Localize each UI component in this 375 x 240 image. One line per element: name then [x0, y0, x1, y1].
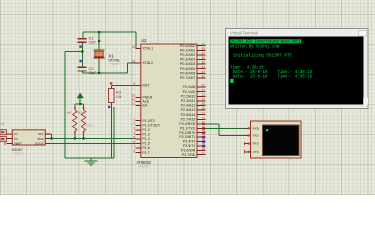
svg-text:<TEXT>: <TEXT>	[12, 151, 23, 155]
svg-text:P2.4/A12: P2.4/A12	[181, 104, 196, 108]
svg-text:P0.3/AD3: P0.3/AD3	[180, 58, 195, 62]
svg-text:<TEXT>: <TEXT>	[110, 62, 121, 66]
svg-text:P0.7/AD7: P0.7/AD7	[180, 76, 195, 80]
svg-text:U1: U1	[1, 122, 5, 126]
svg-text:P3.0/RXD: P3.0/RXD	[179, 122, 195, 126]
svg-text:P2.3/A11: P2.3/A11	[181, 99, 196, 103]
svg-text:P0.5/AD5: P0.5/AD5	[180, 67, 195, 71]
svg-text:P1.3: P1.3	[142, 133, 149, 137]
svg-text:P1.6: P1.6	[142, 146, 149, 150]
svg-text:12: 12	[201, 129, 205, 133]
svg-text:RST: RST	[142, 84, 150, 88]
svg-text:P1.4: P1.4	[142, 137, 149, 141]
svg-text:R2(2): R2(2)	[86, 123, 94, 127]
svg-text:14: 14	[201, 138, 205, 142]
svg-text:39: 39	[201, 42, 205, 46]
svg-text:P0.0/AD0: P0.0/AD0	[180, 44, 195, 48]
svg-text:SOUT: SOUT	[35, 141, 44, 145]
svg-text:22pF: 22pF	[89, 71, 97, 75]
svg-text:VBAT: VBAT	[14, 141, 22, 145]
svg-text:4k7: 4k7	[67, 111, 72, 115]
svg-text:CTS: CTS	[253, 150, 259, 154]
svg-text:25: 25	[201, 102, 205, 106]
svg-text:27: 27	[201, 111, 205, 115]
svg-text:10: 10	[201, 121, 205, 125]
svg-text:C1: C1	[89, 35, 95, 40]
svg-text:P2.6/A14: P2.6/A14	[181, 113, 196, 117]
svg-text:32: 32	[201, 75, 205, 79]
svg-text:16: 16	[201, 147, 205, 151]
svg-text:11: 11	[202, 125, 206, 129]
svg-text:36: 36	[201, 56, 205, 60]
svg-text:33: 33	[201, 70, 205, 74]
svg-text:1: 1	[133, 117, 135, 121]
svg-text:P3.3/INT1: P3.3/INT1	[179, 135, 195, 139]
svg-text:2: 2	[133, 122, 135, 126]
svg-text:5: 5	[133, 136, 135, 140]
svg-text:17: 17	[201, 151, 205, 155]
svg-text:P0.1/AD1: P0.1/AD1	[180, 48, 195, 52]
svg-text:P2.2/A10: P2.2/A10	[181, 94, 196, 98]
svg-text:8: 8	[133, 149, 135, 153]
svg-text:Initializing DS1307 RTC: Initializing DS1307 RTC	[230, 53, 292, 59]
svg-text:P2.1/A9: P2.1/A9	[183, 90, 196, 94]
svg-text:P1.7: P1.7	[142, 151, 149, 155]
svg-text:15: 15	[201, 143, 205, 147]
svg-text:7: 7	[133, 145, 135, 149]
svg-text:37: 37	[201, 52, 205, 56]
svg-text:10k: 10k	[116, 95, 122, 99]
svg-text:3: 3	[133, 127, 135, 131]
svg-text:4: 4	[133, 131, 135, 135]
svg-text:31: 31	[132, 102, 136, 106]
svg-text:RTS: RTS	[253, 142, 259, 146]
svg-text:Virtual Terminal: Virtual Terminal	[230, 30, 258, 35]
svg-text:XTAL2: XTAL2	[142, 61, 153, 65]
svg-text:26: 26	[201, 107, 205, 111]
svg-text:21: 21	[201, 84, 205, 88]
svg-text:SCL: SCL	[38, 132, 44, 136]
svg-text:P0.6/AD6: P0.6/AD6	[180, 71, 195, 75]
svg-text:X1: X1	[14, 132, 18, 136]
svg-text:P2.7/A15: P2.7/A15	[181, 117, 196, 121]
svg-text:U2: U2	[141, 38, 147, 43]
svg-text:P3.7/RD: P3.7/RD	[182, 153, 196, 157]
svg-text:4k7: 4k7	[77, 111, 82, 115]
svg-text:23: 23	[201, 93, 205, 97]
svg-text:P2.0/A8: P2.0/A8	[183, 85, 196, 89]
svg-text:XTAL1: XTAL1	[142, 47, 153, 51]
svg-text:34: 34	[201, 65, 205, 69]
svg-text:13: 13	[201, 134, 205, 138]
svg-text:P3.5/T1: P3.5/T1	[183, 144, 196, 148]
svg-text:38: 38	[201, 47, 205, 51]
svg-text:24: 24	[201, 98, 205, 102]
svg-text:P3.1/TXD: P3.1/TXD	[180, 126, 196, 130]
svg-text:P3.4/T0: P3.4/T0	[183, 140, 196, 144]
svg-text:SDA: SDA	[37, 137, 44, 141]
svg-text:22pF: 22pF	[89, 41, 97, 45]
svg-text:P3.2/INT0: P3.2/INT0	[179, 131, 195, 135]
svg-text:P1.0/T2: P1.0/T2	[142, 119, 155, 123]
svg-text:P0.4/AD4: P0.4/AD4	[180, 62, 195, 66]
svg-text:P2.5/A13: P2.5/A13	[181, 108, 196, 112]
svg-text:P3.6/WR: P3.6/WR	[181, 148, 196, 152]
svg-text:6: 6	[133, 140, 135, 144]
svg-text:X2: X2	[14, 137, 18, 141]
svg-text:9: 9	[133, 82, 135, 86]
svg-text:P1.1/T2EX: P1.1/T2EX	[142, 123, 160, 127]
svg-text:RXD: RXD	[253, 126, 260, 130]
svg-text:Date:- 25-9-18 Time:- 4:38:: Date:- 25-9-18 Time:- 4:38:15	[230, 74, 312, 80]
svg-text:19: 19	[132, 45, 136, 49]
svg-text:18: 18	[132, 60, 136, 64]
svg-text:35: 35	[201, 61, 205, 65]
svg-text:EA: EA	[142, 104, 147, 108]
svg-text:P0.2/AD2: P0.2/AD2	[180, 53, 195, 57]
svg-text:P1.2: P1.2	[142, 128, 149, 132]
svg-text:<TEXT>: <TEXT>	[138, 164, 150, 168]
svg-text:C2: C2	[89, 66, 95, 71]
svg-text:P1.5: P1.5	[142, 142, 149, 146]
svg-text:TXD: TXD	[253, 134, 260, 138]
svg-text:Written By Codrey.com: Written By Codrey.com	[230, 43, 279, 49]
svg-text:22: 22	[201, 88, 205, 92]
